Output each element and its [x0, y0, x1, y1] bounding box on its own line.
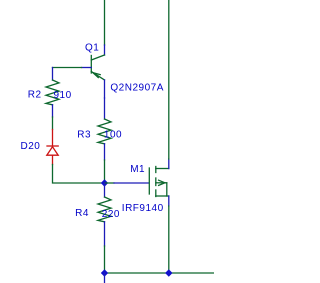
pin base (blue lead)	[82, 67, 92, 69]
pin stub below bottom left junction (blue lead)	[104, 273, 106, 283]
pin bottom (blue lead)	[104, 144, 106, 160]
svg-text:220: 220	[102, 209, 120, 220]
wire mid junction to gate	[105, 182, 115, 184]
junction bottom left	[101, 269, 108, 276]
svg-text:D20: D20	[21, 141, 41, 152]
channel segment bottom	[155, 190, 157, 197]
svg-text:Q1: Q1	[85, 42, 99, 53]
svg-text:Q2N2907A: Q2N2907A	[110, 83, 163, 94]
base bar	[90, 56, 92, 74]
cathode bar	[47, 145, 58, 147]
wire bottom rail	[105, 272, 215, 274]
mosfet M1	[149, 159, 169, 206]
svg-text:R2: R2	[28, 90, 42, 101]
wire drain to top	[168, 0, 170, 159]
svg-text:100: 100	[104, 130, 122, 141]
pin collector (blue lead)	[104, 45, 106, 55]
pin bottom (blue lead)	[52, 105, 54, 117]
wire base to R2	[53, 67, 82, 69]
wire R4 to bottom rail	[104, 246, 106, 273]
wire source to bottom rail	[168, 206, 170, 273]
pin bottom (blue lead)	[104, 222, 106, 246]
junction mid node	[101, 179, 108, 186]
channel segment top	[155, 167, 157, 173]
bulk tie vertical	[166, 183, 168, 196]
resistor R4	[98, 183, 111, 246]
svg-text:IRF9140: IRF9140	[122, 203, 164, 214]
wire top collector column	[104, 0, 106, 45]
bulk stub with arrow	[156, 182, 167, 184]
wire R3 to mid junction	[104, 160, 106, 183]
zigzag body	[98, 119, 111, 144]
pin cathode top (red lead)	[52, 130, 54, 147]
svg-text:R4: R4	[75, 208, 89, 219]
pin anode bottom (red lead)	[52, 155, 54, 164]
pin gate (blue lead)	[114, 182, 149, 184]
pin top (blue lead)	[52, 68, 54, 81]
zigzag body	[46, 80, 59, 105]
pin top (blue lead)	[104, 183, 106, 197]
emitter arrow	[93, 73, 100, 78]
pin emitter (blue lead)	[104, 80, 106, 98]
svg-text:R3: R3	[77, 130, 91, 141]
svg-text:M1: M1	[130, 164, 145, 175]
source stub	[156, 195, 169, 197]
drain stub	[156, 168, 169, 170]
wire D20 to mid junction	[53, 165, 105, 184]
transistor Q1	[82, 45, 105, 98]
bulk arrow	[159, 180, 165, 185]
wire R2 to D20	[52, 117, 54, 130]
gate bar	[148, 168, 150, 194]
diode D20	[47, 130, 58, 165]
pin top (blue lead)	[104, 98, 106, 119]
collector diagonal	[91, 55, 104, 60]
channel segment middle	[155, 178, 157, 186]
pin drain (blue lead)	[168, 159, 170, 169]
resistor R2	[46, 68, 59, 118]
pin source (blue lead)	[168, 196, 170, 206]
resistor R3	[98, 98, 111, 160]
svg-text:910: 910	[54, 90, 72, 101]
junction bottom right	[165, 269, 172, 276]
triangle	[47, 147, 58, 155]
emitter diagonal	[91, 72, 104, 81]
zigzag body	[98, 197, 111, 222]
